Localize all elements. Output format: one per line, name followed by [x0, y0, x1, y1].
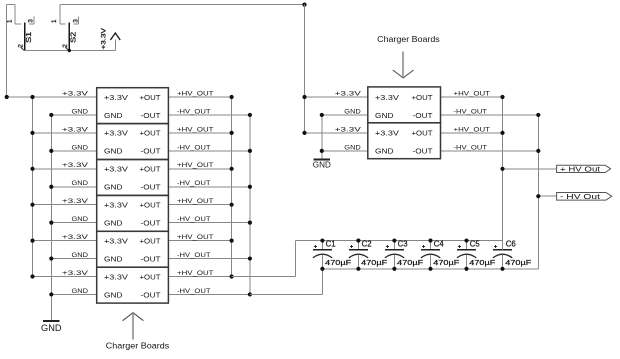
- svg-text:3: 3: [72, 19, 79, 23]
- power +3.3V supply symbol: [100, 27, 120, 50]
- junction +HV rail row 8: [230, 239, 234, 243]
- svg-text:+OUT: +OUT: [140, 129, 161, 138]
- svg-text:470µF: 470µF: [325, 260, 351, 267]
- svg-text:C5: C5: [470, 240, 481, 249]
- svg-text:GND: GND: [72, 288, 89, 295]
- switch S2: [51, 5, 79, 51]
- svg-text:+3.3V: +3.3V: [62, 162, 89, 169]
- svg-text:GND: GND: [72, 144, 89, 151]
- junction GND rail row 3 right: [320, 149, 324, 153]
- svg-text:+3.3V: +3.3V: [62, 270, 89, 277]
- wire: +HV routing row10 to top bus: [232, 276, 296, 278]
- svg-text:+HV_OUT: +HV_OUT: [177, 162, 214, 169]
- svg-text:GND: GND: [104, 183, 123, 192]
- capacitor C3 470uF: [385, 238, 423, 270]
- charger board module 4 (left bank): [97, 195, 169, 231]
- svg-text:+3.3V: +3.3V: [335, 90, 362, 97]
- wire: -HV rail (left): [249, 115, 251, 295]
- svg-text:-HV_OUT: -HV_OUT: [177, 180, 211, 187]
- svg-text:3: 3: [28, 19, 35, 23]
- wire: +3.3V row 0 (right): [305, 96, 368, 98]
- svg-text:-OUT: -OUT: [141, 290, 161, 299]
- wire: +HV OUT row 6: [168, 204, 231, 206]
- svg-text:1: 1: [51, 19, 58, 23]
- svg-text:GND: GND: [104, 218, 123, 227]
- wire: GND rail (right): [321, 115, 323, 159]
- svg-text:GND: GND: [72, 108, 89, 115]
- wire: +3.3V row 2: [33, 132, 97, 134]
- svg-text:+3.3V: +3.3V: [104, 129, 128, 138]
- node: + HV Out output flag: [557, 164, 611, 173]
- annotation: Charger Boards (left) arrow: [123, 313, 144, 340]
- junction GND rail row 9: [49, 256, 53, 260]
- junction +3.3V rail row 0 right: [302, 95, 306, 99]
- svg-text:+OUT: +OUT: [140, 272, 161, 281]
- svg-text:470µF: 470µF: [361, 260, 387, 267]
- wire: +HV OUT row 0: [168, 96, 231, 98]
- junction +HV rail row 2: [230, 131, 234, 135]
- svg-text:-OUT: -OUT: [141, 183, 161, 192]
- charger board module 2 (right bank): [368, 123, 441, 159]
- svg-text:C6: C6: [506, 240, 516, 249]
- junction +3.3V rail row 0: [30, 95, 34, 99]
- wire: +HV rail (left): [231, 97, 233, 277]
- svg-text:-HV_OUT: -HV_OUT: [177, 288, 211, 295]
- svg-text:+HV_OUT: +HV_OUT: [177, 234, 214, 241]
- junction GND rail row 11: [49, 292, 53, 296]
- svg-text:+3.3V: +3.3V: [62, 198, 89, 205]
- svg-text:+3.3V: +3.3V: [375, 93, 399, 102]
- svg-text:+3.3V: +3.3V: [104, 272, 128, 281]
- capacitor C1 470uF: [313, 238, 351, 270]
- svg-text:+3.3V: +3.3V: [104, 93, 128, 102]
- junction -HV rail row 3 right: [536, 149, 540, 153]
- svg-text:-HV_OUT: -HV_OUT: [177, 144, 211, 151]
- svg-text:GND: GND: [104, 290, 123, 299]
- svg-text:-HV_OUT: -HV_OUT: [177, 252, 211, 259]
- svg-text:GND: GND: [72, 216, 89, 223]
- wire: +HV OUT row 8: [168, 240, 231, 242]
- svg-text:GND: GND: [344, 108, 361, 115]
- wire: +3.3V row 4: [33, 168, 97, 170]
- junction -HV rail row 11: [248, 292, 252, 296]
- svg-text:- HV Out: - HV Out: [560, 192, 600, 201]
- wire: +HV top bus: [296, 240, 503, 242]
- wire: +3.3V row 0: [7, 96, 97, 98]
- wire: GND row 11: [51, 293, 96, 295]
- junction GND rail row 3: [49, 149, 53, 153]
- capacitor C6 470uF: [493, 240, 531, 271]
- junction -HV Out tap: [536, 194, 540, 198]
- junction +3.3V rail row 4: [30, 167, 34, 171]
- svg-text:GND: GND: [313, 160, 331, 170]
- switch S1: [7, 5, 35, 51]
- svg-text:+HV_OUT: +HV_OUT: [454, 90, 491, 97]
- junction +3.3V rail row 2: [30, 131, 34, 135]
- wire: top wire S2 pin1 to right section: [60, 4, 305, 6]
- ground symbol GND (right): [313, 159, 331, 169]
- svg-text:-HV_OUT: -HV_OUT: [177, 108, 211, 115]
- svg-text:S2: S2: [69, 32, 78, 43]
- svg-text:C4: C4: [434, 240, 445, 249]
- wire: +3.3V row 2 (right): [305, 132, 368, 134]
- junction -HV rail row 1 right: [536, 113, 540, 117]
- svg-text:-OUT: -OUT: [141, 111, 161, 120]
- wire: -HV OUT row 3: [168, 150, 250, 152]
- svg-text:2: 2: [62, 44, 69, 48]
- wire: +3.3V row 6: [33, 204, 97, 206]
- wire: -HV OUT row 3 (right): [441, 150, 539, 152]
- wire: +HV Out flag wire: [503, 168, 557, 170]
- junction GND rail row 1 right: [320, 113, 324, 117]
- svg-text:+OUT: +OUT: [140, 165, 161, 174]
- junction -HV rail row 9: [248, 256, 252, 260]
- wire: +HV rail (right) down to top bus: [502, 97, 504, 250]
- charger board module 1 (left bank): [97, 88, 169, 124]
- wire: GND row 3 (right): [322, 150, 368, 152]
- svg-text:+3.3V: +3.3V: [104, 236, 128, 245]
- svg-text:Charger Boards: Charger Boards: [106, 341, 170, 351]
- junction +HV rail row 0: [230, 95, 234, 99]
- charger board module 5 (left bank): [97, 231, 169, 267]
- charger board module 3 (left bank): [97, 160, 169, 196]
- junction +3.3V rail row 2 right: [302, 131, 306, 135]
- wire: +3.3V row 8: [33, 240, 97, 242]
- svg-text:+HV_OUT: +HV_OUT: [454, 126, 491, 133]
- svg-text:GND: GND: [344, 144, 361, 151]
- junction +HV rail row 0 right: [500, 95, 504, 99]
- svg-text:470µF: 470µF: [469, 260, 495, 267]
- svg-text:2: 2: [17, 44, 24, 48]
- svg-text:+OUT: +OUT: [140, 201, 161, 210]
- charger board module 1 (right bank): [368, 87, 441, 123]
- svg-text:-HV_OUT: -HV_OUT: [177, 216, 211, 223]
- svg-text:+3.3V: +3.3V: [62, 90, 89, 97]
- wire: -HV OUT row 1: [168, 114, 250, 116]
- svg-text:-OUT: -OUT: [413, 111, 433, 120]
- wire: -HV OUT row 7: [168, 222, 250, 224]
- capacitor C5 470uF: [457, 238, 495, 270]
- wire: -HV OUT row 1 (right): [441, 114, 539, 116]
- svg-text:+OUT: +OUT: [140, 93, 161, 102]
- wire: -HV OUT row 5: [168, 186, 250, 188]
- junction -HV rail row 5: [248, 185, 252, 189]
- charger board module 6 (left bank): [97, 267, 169, 303]
- svg-text:-OUT: -OUT: [413, 147, 433, 156]
- wire: +HV OUT row 2: [168, 132, 231, 134]
- wire: +3.3V rail down from top wire (right): [304, 5, 306, 133]
- wire: -HV OUT row 11: [168, 293, 250, 295]
- svg-text:-OUT: -OUT: [141, 147, 161, 156]
- svg-text:GND: GND: [104, 111, 123, 120]
- junction +HV rail row 6: [230, 203, 234, 207]
- svg-text:+3.3V: +3.3V: [104, 201, 128, 210]
- svg-text:470µF: 470µF: [433, 260, 459, 267]
- junction -HV rail row 3: [248, 149, 252, 153]
- junction +HV Out tap: [500, 167, 504, 171]
- wire: GND row 7: [51, 222, 96, 224]
- svg-text:+HV_OUT: +HV_OUT: [177, 270, 214, 277]
- svg-text:GND: GND: [41, 323, 62, 333]
- svg-text:-HV_OUT: -HV_OUT: [454, 144, 488, 151]
- wire: S1 top jog: [7, 4, 16, 6]
- svg-text:C3: C3: [398, 240, 408, 249]
- svg-text:-OUT: -OUT: [141, 254, 161, 263]
- svg-text:+HV_OUT: +HV_OUT: [177, 198, 214, 205]
- ground symbol GND (left): [41, 321, 62, 333]
- svg-text:+OUT: +OUT: [412, 93, 433, 102]
- svg-text:GND: GND: [375, 111, 394, 120]
- wire: left +3.3V rail from S1: [6, 5, 8, 97]
- capacitor C2 470uF: [349, 238, 387, 270]
- svg-text:1: 1: [7, 19, 14, 23]
- wire: bottom bus riser to right block -HV rail: [537, 151, 539, 269]
- wire: GND row 1: [51, 114, 96, 116]
- wire: +HV OUT row 2 (right): [441, 132, 503, 134]
- wire: -HV bottom bus: [322, 268, 538, 270]
- junction left rail row 0: [5, 95, 9, 99]
- wire: -HV routing row11 to bottom bus: [250, 293, 323, 295]
- svg-text:C2: C2: [362, 240, 372, 249]
- svg-text:GND: GND: [72, 180, 89, 187]
- svg-text:Charger Boards: Charger Boards: [377, 34, 440, 44]
- junction +HV rail row 4: [230, 167, 234, 171]
- wire: +HV OUT row 10: [168, 276, 231, 278]
- svg-text:GND: GND: [72, 252, 89, 259]
- wire: +3.3V row 10: [33, 276, 97, 278]
- svg-text:S1: S1: [24, 32, 33, 43]
- wire: GND row 3: [51, 150, 96, 152]
- junction -HV rail row 1: [248, 113, 252, 117]
- wire: -HV Out flag wire: [538, 195, 556, 197]
- node: - HV Out output flag: [557, 192, 612, 201]
- svg-text:+3.3V: +3.3V: [335, 126, 362, 133]
- junction +3.3V rail row 6: [30, 203, 34, 207]
- wire: +HV OUT row 4: [168, 168, 231, 170]
- svg-text:+3.3V: +3.3V: [100, 27, 107, 49]
- svg-text:+ HV Out: + HV Out: [560, 164, 600, 173]
- svg-text:+3.3V: +3.3V: [375, 129, 399, 138]
- wire: GND row 9: [51, 258, 96, 260]
- charger board module 2 (left bank): [97, 124, 169, 160]
- junction GND rail row 5: [49, 185, 53, 189]
- svg-text:GND: GND: [104, 254, 123, 263]
- svg-text:-HV_OUT: -HV_OUT: [454, 108, 488, 115]
- junction +3.3V rail row 10: [30, 274, 34, 278]
- junction S2 common: [68, 49, 71, 52]
- svg-text:-OUT: -OUT: [141, 218, 161, 227]
- svg-text:470µF: 470µF: [505, 260, 531, 267]
- svg-text:+OUT: +OUT: [412, 129, 433, 138]
- wire: GND row 5: [51, 186, 96, 188]
- svg-text:+OUT: +OUT: [140, 236, 161, 245]
- svg-text:+HV_OUT: +HV_OUT: [177, 90, 214, 97]
- wire: -HV rail (right) down to bottom bus: [537, 115, 539, 196]
- wire: GND rail (left): [50, 115, 52, 321]
- wire: GND row 1 (right): [322, 114, 368, 116]
- svg-text:+HV_OUT: +HV_OUT: [177, 126, 214, 133]
- junction +HV rail row 2 right: [500, 131, 504, 135]
- junction -HV rail row 7: [248, 221, 252, 225]
- svg-text:470µF: 470µF: [397, 260, 423, 267]
- wire: +3.3V distribution rail (left): [32, 97, 34, 277]
- junction GND rail row 7: [49, 221, 53, 225]
- svg-text:+3.3V: +3.3V: [62, 234, 89, 241]
- junction +HV rail row 10: [230, 274, 234, 278]
- svg-text:+3.3V: +3.3V: [62, 126, 89, 133]
- capacitor C4 470uF: [421, 238, 459, 270]
- svg-text:GND: GND: [375, 147, 394, 156]
- wire: switch common bus to +3.3V supply: [25, 50, 116, 52]
- node: top corner junction: [302, 3, 306, 7]
- svg-text:+3.3V: +3.3V: [104, 165, 128, 174]
- wire: +HV OUT row 0 (right): [441, 96, 503, 98]
- junction +3.3V rail row 8: [30, 239, 34, 243]
- svg-text:GND: GND: [104, 147, 123, 156]
- wire: -HV OUT row 9: [168, 258, 250, 260]
- svg-text:C1: C1: [326, 240, 336, 249]
- annotation: Charger Boards arrow (right): [393, 51, 414, 78]
- junction GND rail row 1: [49, 113, 53, 117]
